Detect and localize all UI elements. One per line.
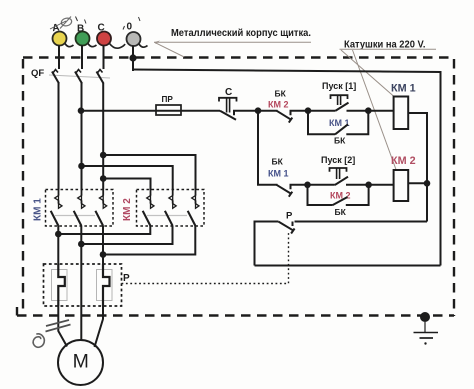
- QF pole 1: [52, 70, 59, 84]
- wire: phase A vertical: [58, 83, 60, 190]
- svg-text:КМ 1: КМ 1: [391, 83, 416, 95]
- start button Пуск [1] (NO pushbutton): [308, 81, 368, 111]
- node: phase C tap 2: [100, 175, 107, 182]
- node: phase B tap to KM2: [78, 163, 85, 170]
- wire: neutral rail from terminal 0 to right side: [133, 70, 441, 266]
- wire: bottom return to neutral: [255, 265, 441, 267]
- circuit breaker QF: [31, 68, 110, 84]
- thermal contact P (NC) in return line: [255, 211, 428, 266]
- KM1 mechanical link: [55, 215, 95, 217]
- node: control tap on phase B: [78, 107, 85, 114]
- KM2 pole 2: [165, 190, 176, 226]
- KM2 pole 1: [143, 190, 154, 226]
- svg-text:БК: БК: [275, 89, 287, 99]
- svg-text:КМ 1: КМ 1: [268, 169, 289, 179]
- node: rung2 branch left: [304, 182, 311, 189]
- svg-text:КМ 2: КМ 2: [391, 155, 416, 167]
- KM2 pole 3: [188, 190, 199, 226]
- wire: rung2 to coil KM2: [369, 184, 394, 186]
- KM1 pole 2: [74, 190, 85, 227]
- wire: phase B to KM2 pole 2: [82, 166, 173, 190]
- thermal relay P box: [44, 264, 122, 306]
- stop button C (NC pushbutton): [219, 87, 258, 120]
- wire: phase B vertical: [81, 83, 83, 190]
- wire: motor lead C: [95, 306, 104, 347]
- pencil slash marks on lead A: [46, 320, 71, 332]
- control circuit: wire from phase B tap to fuse: [81, 110, 157, 112]
- terminal C (red): [97, 23, 125, 70]
- wire: phase C to KM2 pole 3: [103, 155, 195, 190]
- ground symbol: [414, 322, 439, 345]
- contactor KM1 main contacts box: [46, 190, 114, 227]
- wire: rung1 to coil KM1: [368, 110, 393, 112]
- NC aux contact БК КМ1 (rung 2): [268, 157, 308, 197]
- svg-text:0: 0: [127, 22, 133, 33]
- earth connection dot on enclosure: [420, 312, 430, 322]
- KM1 pole 1: [51, 190, 62, 227]
- terminal A (yellow): [50, 17, 78, 70]
- annotation: Металлический корпус щитка.: [154, 28, 311, 57]
- wire: motor lead A: [58, 306, 67, 347]
- node: neutral entry dot on enclosure wall: [129, 54, 136, 61]
- node: phase C tap 1: [100, 152, 107, 159]
- svg-text:Металлический корпус щитка.: Металлический корпус щитка.: [171, 28, 311, 39]
- wire: KM2 pole3 return to phase C: [103, 226, 195, 255]
- start button Пуск [2] (NO pushbutton): [308, 155, 369, 185]
- holding contact КМ2 БК (parallel branch rung 2): [308, 185, 369, 217]
- svg-text:Р: Р: [286, 211, 293, 222]
- svg-text:М: М: [73, 351, 89, 373]
- thermal heater element phase C: [97, 264, 113, 306]
- svg-text:Пуск [1]: Пуск [1]: [322, 81, 356, 91]
- svg-text:БК: БК: [334, 136, 346, 146]
- svg-text:КМ 2: КМ 2: [122, 198, 133, 221]
- node: join on phase A: [55, 231, 62, 238]
- node: coil common junction: [424, 180, 431, 187]
- thermal heater element phase A: [52, 264, 68, 306]
- wire: phase C vertical: [102, 83, 104, 190]
- svg-text:С: С: [225, 87, 232, 98]
- fuse ПР: [156, 95, 181, 115]
- dotted mechanical link from thermal relay to P contact: [122, 231, 289, 284]
- wire: feed to rung 2: [258, 111, 278, 185]
- wire: phase C down to thermal relay: [102, 226, 104, 264]
- motor M: [58, 340, 103, 385]
- wire: phase B through relay box: [80, 264, 82, 306]
- KM2 mechanical link: [147, 215, 187, 217]
- wire: phase B down to thermal relay: [80, 226, 82, 264]
- wire: KM2 pole2 return to phase B: [81, 226, 172, 244]
- QF pole 3: [97, 70, 104, 84]
- terminal B (green): [76, 20, 97, 70]
- NC aux contact БК КМ2 (rung 1): [258, 89, 308, 123]
- wire: coil KM2 to common return: [408, 182, 427, 184]
- holding contact КМ1 БК (parallel branch rung 1): [308, 111, 368, 146]
- enclosure dashed border (металлический корпус щитка): [17, 58, 454, 317]
- KM1 pole 3: [95, 190, 106, 227]
- svg-text:ПР: ПР: [162, 95, 174, 104]
- coil KM1: [391, 83, 416, 130]
- svg-text:Пуск [2]: Пуск [2]: [321, 155, 355, 165]
- wire: KM2 pole1 return to phase A: [58, 226, 150, 234]
- svg-text:БК: БК: [272, 157, 284, 167]
- wire: phase A down to thermal relay: [57, 226, 59, 264]
- wire: coil KM1 to common return: [408, 113, 427, 222]
- QF mechanical link: [49, 75, 110, 78]
- wire: fuse to stop button C: [181, 110, 220, 112]
- svg-text:QF: QF: [31, 68, 44, 79]
- wire: motor lead B: [80, 306, 82, 340]
- svg-text:КМ 2: КМ 2: [330, 191, 351, 201]
- node: join on phase B: [78, 241, 85, 248]
- wire: phase C to KM2 pole 1: [103, 179, 150, 191]
- coil KM2: [391, 155, 416, 201]
- pencil scribble C near motor: [33, 334, 44, 347]
- svg-text:КМ 1: КМ 1: [33, 198, 44, 221]
- node: rung1 branch right: [365, 107, 372, 114]
- annotation: Катушки на 220 V.: [340, 40, 437, 170]
- QF pole 2: [75, 70, 82, 84]
- svg-text:БК: БК: [335, 207, 347, 217]
- node: rung1 branch left: [305, 107, 312, 114]
- node: rung2 branch right: [365, 182, 372, 189]
- node: branch after stop button: [255, 107, 262, 114]
- svg-text:КМ 2: КМ 2: [268, 100, 289, 110]
- contactor KM2 main contacts box: [137, 190, 205, 227]
- node: join on phase C: [100, 251, 107, 258]
- terminal 0 (grey, neutral): [123, 17, 148, 71]
- svg-text:Р: Р: [123, 273, 130, 284]
